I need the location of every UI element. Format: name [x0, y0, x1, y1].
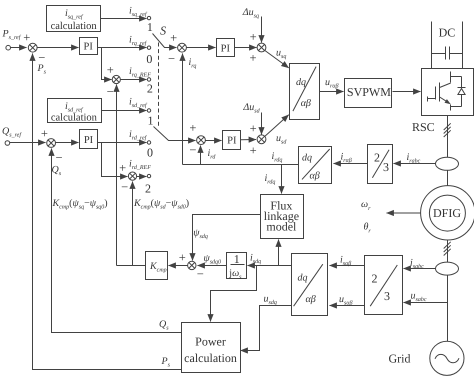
- svg-text:Power: Power: [195, 335, 226, 349]
- svg-text:ψsdq: ψsdq: [193, 227, 208, 240]
- svg-text:usdq: usdq: [264, 293, 277, 306]
- svg-text:−: −: [189, 143, 196, 157]
- svg-text:usd: usd: [276, 133, 287, 146]
- svg-text:Qs: Qs: [159, 319, 169, 332]
- svg-text:2: 2: [374, 151, 380, 165]
- svg-text:0: 0: [147, 146, 153, 160]
- svg-text:irdq: irdq: [272, 151, 283, 164]
- svg-text:PI: PI: [227, 136, 237, 147]
- svg-text:ird_REF: ird_REF: [129, 159, 151, 172]
- svg-text:2: 2: [372, 272, 378, 286]
- svg-text:αβ: αβ: [306, 294, 316, 305]
- svg-text:RSC: RSC: [412, 120, 435, 134]
- svg-text:usabc: usabc: [411, 290, 427, 303]
- svg-text:+: +: [119, 161, 126, 175]
- svg-text:θr: θr: [364, 222, 372, 235]
- svg-text:Qs_ref: Qs_ref: [2, 126, 22, 139]
- svg-text:urαβ: urαβ: [325, 77, 338, 90]
- svg-text:calculation: calculation: [51, 21, 98, 32]
- svg-text:Ps: Ps: [161, 356, 171, 369]
- svg-text:ωr: ωr: [361, 199, 371, 212]
- svg-text:DFIG: DFIG: [433, 206, 461, 220]
- svg-text:PI: PI: [84, 135, 94, 146]
- svg-text:3: 3: [383, 160, 389, 174]
- svg-text:+: +: [179, 251, 186, 265]
- svg-text:ψsdq0: ψsdq0: [204, 253, 222, 266]
- svg-text:irq: irq: [189, 57, 197, 70]
- svg-text:+: +: [250, 30, 257, 44]
- svg-text:irq_ref: irq_ref: [129, 34, 148, 47]
- svg-text:dq: dq: [298, 273, 308, 284]
- svg-text:0: 0: [146, 52, 152, 66]
- svg-text:3: 3: [384, 289, 390, 303]
- svg-text:Ps: Ps: [37, 63, 47, 76]
- svg-text:αβ: αβ: [310, 171, 320, 182]
- svg-text:Kcmp(ψsq−ψsq0): Kcmp(ψsq−ψsq0): [52, 198, 108, 210]
- svg-text:Kcmp(ψsd−ψsd0): Kcmp(ψsd−ψsd0): [133, 198, 189, 210]
- svg-text:+: +: [23, 31, 30, 45]
- svg-text:2: 2: [145, 182, 151, 196]
- svg-text:+: +: [107, 63, 114, 77]
- svg-text:−: −: [168, 52, 175, 66]
- svg-text:PI: PI: [84, 42, 94, 53]
- svg-text:usq: usq: [276, 48, 286, 61]
- svg-text:SVPWM: SVPWM: [347, 85, 391, 99]
- svg-text:+: +: [189, 121, 196, 135]
- svg-text:isαβ: isαβ: [340, 255, 351, 268]
- svg-text:−: −: [55, 151, 62, 165]
- svg-text:+: +: [170, 31, 177, 45]
- svg-text:Qs: Qs: [52, 165, 62, 178]
- svg-text:ird: ird: [208, 148, 217, 161]
- svg-text:model: model: [266, 219, 297, 233]
- svg-text:Grid: Grid: [389, 352, 411, 366]
- svg-text:dq: dq: [302, 153, 312, 164]
- svg-text:usαβ: usαβ: [339, 294, 352, 307]
- svg-text:PI: PI: [221, 44, 231, 55]
- svg-text:isq_ref: isq_ref: [129, 5, 148, 18]
- svg-text:ird_ref: ird_ref: [129, 129, 148, 142]
- svg-text:−: −: [121, 180, 128, 194]
- svg-text:1: 1: [148, 113, 154, 127]
- svg-text:irabc: irabc: [407, 152, 421, 165]
- svg-text:dq: dq: [296, 77, 306, 88]
- svg-text:αβ: αβ: [301, 98, 311, 109]
- svg-text:isdq: isdq: [250, 252, 261, 265]
- svg-text:2: 2: [147, 82, 153, 96]
- svg-text:+: +: [250, 121, 257, 135]
- svg-text:calculation: calculation: [51, 112, 98, 123]
- svg-text:isd_ref: isd_ref: [129, 97, 148, 110]
- svg-text:isabc: isabc: [410, 257, 424, 270]
- svg-text:irq_REF: irq_REF: [129, 66, 151, 79]
- svg-text:−: −: [107, 84, 114, 98]
- svg-text:DC: DC: [439, 26, 456, 40]
- svg-text:Δusd: Δusd: [242, 102, 260, 115]
- svg-text:Ps_ref: Ps_ref: [2, 29, 22, 42]
- svg-text:calculation: calculation: [184, 351, 237, 365]
- svg-text:+: +: [249, 51, 256, 65]
- svg-text:1: 1: [234, 252, 240, 266]
- svg-text:S: S: [160, 24, 166, 38]
- svg-text:1: 1: [147, 20, 153, 34]
- svg-text:+: +: [250, 144, 257, 158]
- svg-text:−: −: [197, 267, 204, 281]
- svg-text:irdq: irdq: [265, 173, 276, 186]
- svg-text:Δusq: Δusq: [242, 7, 259, 20]
- svg-text:+: +: [41, 126, 48, 140]
- svg-text:irαβ: irαβ: [341, 151, 352, 164]
